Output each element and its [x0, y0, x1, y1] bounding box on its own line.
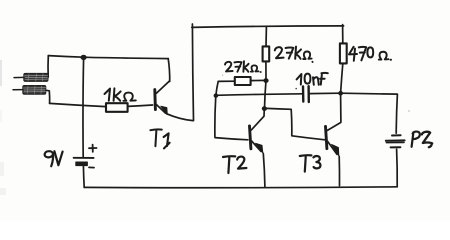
node D junction dot (T2 base / cap / R4) [214, 93, 219, 97]
transistor T3 emitter stroke with arrow [328, 141, 337, 154]
wire lower-left to resistor R1 [50, 103, 106, 106]
wire T3 emitter down to bottom rail [338, 156, 340, 185]
wire top-left rail from input jack to battery node and T1 collector [48, 56, 168, 59]
paper specks [222, 75, 410, 112]
wire jack J1 to rail [47, 56, 49, 78]
label 1kOhm (R1) [105, 88, 136, 100]
resistor R3 470Ohm body [340, 43, 347, 63]
wire R4 right lead to node B [251, 79, 266, 81]
wire node D down to T2 base [215, 98, 248, 140]
wire top-right corner down to R3 [342, 25, 344, 44]
wire R4 left lead corner down to node D [216, 81, 235, 95]
wire node D to capacitor C1 left plate [216, 94, 302, 96]
piezo PZ element plates [386, 135, 405, 147]
wire jack J2 down to lower rail [46, 90, 50, 103]
transistor T2 base bar [250, 126, 251, 149]
labels group [45, 47, 433, 173]
transistor T2 collector stroke up to node C [251, 109, 264, 130]
wire R1 to T1 base [128, 105, 153, 106]
capacitor C1 10nF plates [302, 86, 305, 101]
resistor R4 27kOhm (horizontal) body [235, 77, 251, 85]
transistor T3 base bar [326, 126, 327, 148]
wire corner down to T1 collector [168, 59, 170, 82]
wire node E to piezo [341, 93, 397, 133]
wire T2 emitter down to bottom rail [263, 153, 265, 186]
wire battery positive up to node A [82, 57, 85, 156]
connector plug J2 (bottom) [13, 86, 46, 95]
wire node C to T3 base (cross coupling) [267, 108, 325, 139]
wire T1 emitter to right vertical [167, 114, 193, 121]
label T2 [223, 156, 246, 173]
wire C1 right plate to node E [310, 92, 340, 94]
wire R2 bottom to node B [265, 61, 267, 80]
wire rail to R2 top [265, 27, 267, 46]
wire piezo down to bottom rail [396, 149, 399, 187]
transistor T1 collector stroke [156, 81, 169, 93]
node B junction dot (R2/R4 junction) [263, 78, 268, 83]
wire battery negative to bottom rail [82, 166, 85, 187]
transistor T1 base bar [153, 90, 156, 110]
wire R3 bottom to node E [341, 64, 343, 93]
label T1 [150, 129, 169, 148]
label 10nF (C1) [297, 73, 328, 85]
label T3 [300, 155, 321, 171]
label 27kOhm (R4, horizontal resistor) [225, 61, 261, 72]
wire top rail [192, 26, 344, 28]
paper smudge left edge [0, 60, 6, 195]
battery BT1 9V plates [74, 145, 97, 168]
transistor T1 emitter stroke with arrow [156, 104, 165, 113]
resistor R1 1kOhm body [106, 103, 128, 112]
wire right vertical up to top rail (supply of multivibrator) [192, 24, 193, 121]
node C junction dot (T2 collector) [262, 106, 267, 111]
node E junction dot (T3 collector / R3 / piezo) [338, 91, 343, 96]
wire node B down to node C crossing cap wire [265, 81, 267, 109]
node A junction dot (battery + / jack / T1 collector) [81, 55, 87, 60]
label 27kOhm (R2, vertical resistor) [275, 47, 313, 62]
transistor T2 emitter stroke with arrow [252, 141, 261, 151]
transistor T3 collector stroke up to node E [327, 95, 341, 130]
connector plug J1 (top) [14, 73, 48, 81]
label 470Ohm (R3) [349, 47, 391, 61]
resistor R2 27kOhm (vertical) body [263, 46, 270, 61]
wire bottom rail [84, 186, 397, 189]
label 9V [45, 151, 63, 166]
label PZ [412, 132, 433, 148]
